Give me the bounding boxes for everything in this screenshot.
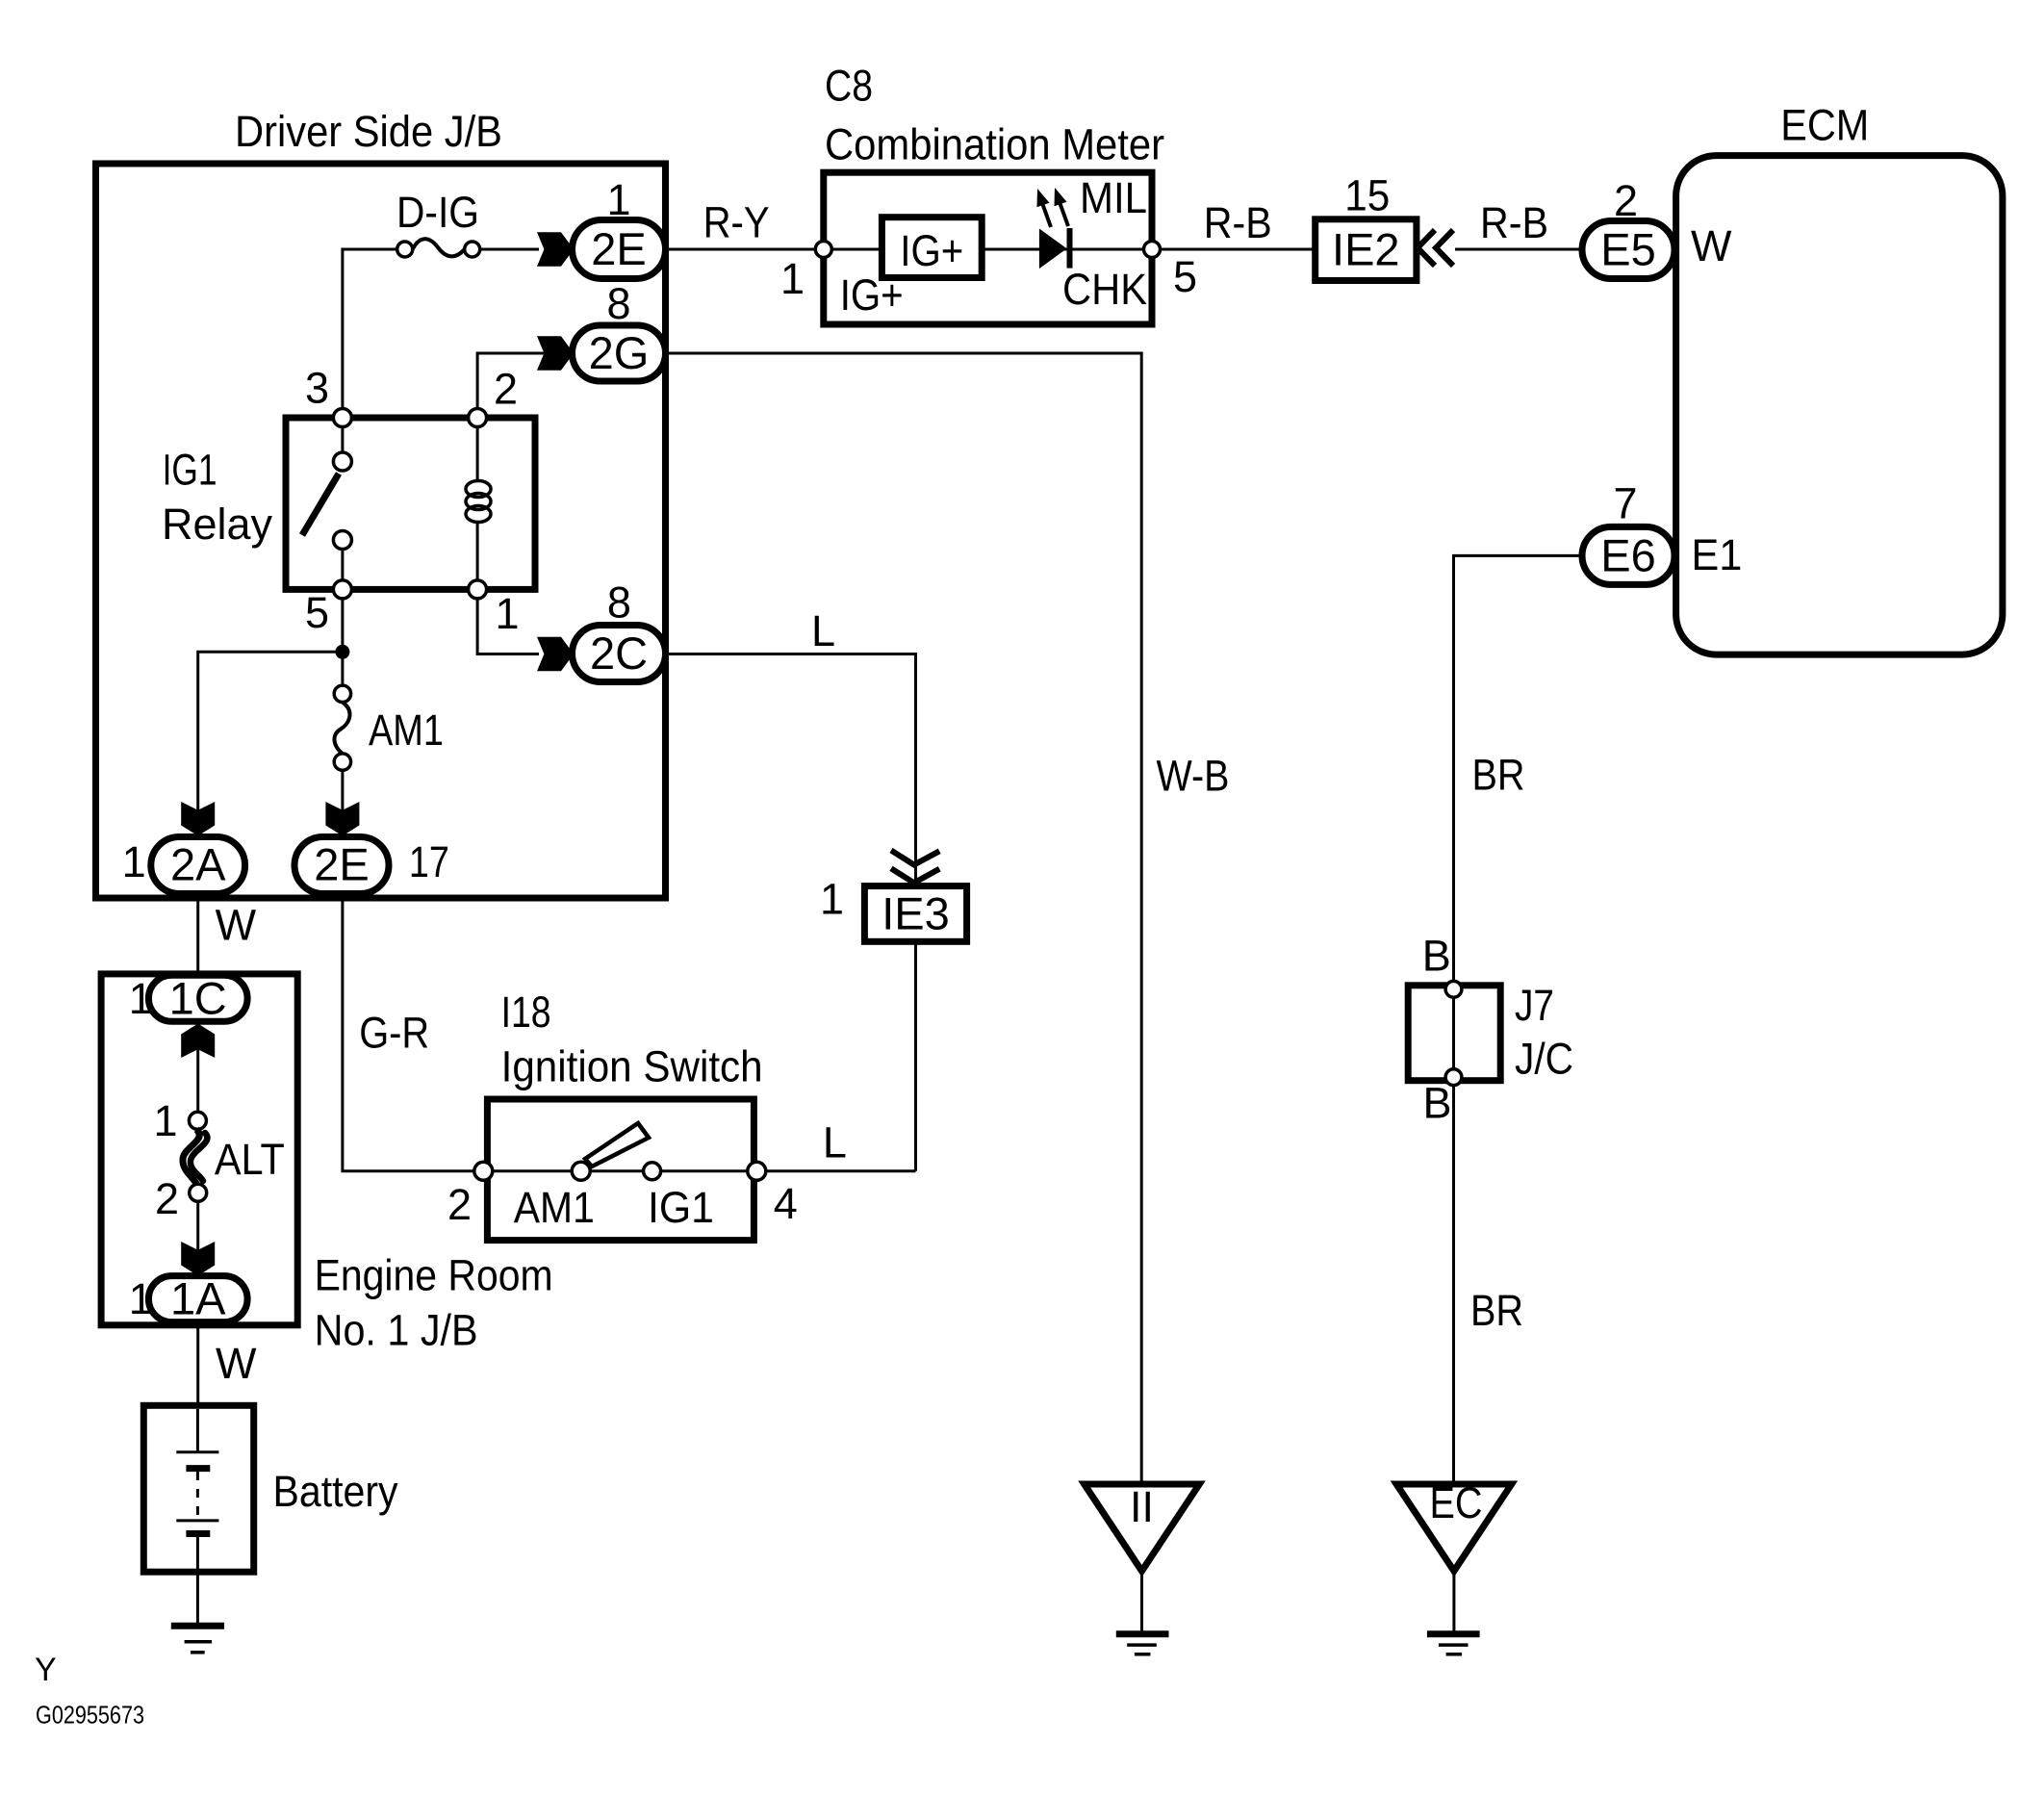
meter pin 1 circle	[815, 242, 831, 258]
wire: fuse AM1 down to 2E-17 arrow	[341, 770, 344, 836]
svg-text:B: B	[1422, 932, 1451, 981]
arrow up to 1C	[181, 1024, 215, 1059]
wire: IE3 down to switch wire	[914, 941, 917, 1171]
switch contact IG1 circle	[644, 1163, 661, 1180]
svg-text:8: 8	[607, 578, 631, 628]
svg-text:W: W	[1691, 221, 1732, 270]
meter internal wire	[831, 248, 1145, 251]
chevron 1 at IE2	[1418, 230, 1435, 266]
svg-text:BR: BR	[1470, 1286, 1523, 1335]
svg-text:Combination Meter: Combination Meter	[825, 120, 1164, 169]
svg-text:2E: 2E	[314, 839, 370, 890]
svg-text:2E: 2E	[591, 223, 647, 274]
svg-text:8: 8	[606, 279, 630, 328]
connector 2E (pin 17)	[294, 837, 389, 894]
svg-text:IG+: IG+	[900, 226, 963, 275]
svg-text:ALT: ALT	[215, 1135, 285, 1184]
svg-text:E5: E5	[1600, 224, 1656, 275]
wire: meter pin5 to IE2	[1161, 248, 1316, 251]
svg-text:17: 17	[409, 837, 449, 886]
relay switch wire stubs	[341, 427, 344, 453]
svg-text:2: 2	[494, 364, 518, 413]
arrow down into 1A	[181, 1242, 215, 1276]
svg-text:2: 2	[447, 1180, 472, 1229]
J7 bottom pin circle	[1445, 1069, 1462, 1086]
relay switch upper contact circle	[333, 452, 351, 471]
svg-text:R-B: R-B	[1204, 198, 1272, 247]
J7 internal wire	[1452, 986, 1455, 1080]
connector 2G	[573, 325, 666, 381]
svg-text:B: B	[1423, 1079, 1452, 1128]
fusible link ALT pin 1 circle	[189, 1112, 206, 1129]
LED cathode bar	[1067, 228, 1073, 269]
svg-text:2C: 2C	[590, 628, 648, 679]
svg-text:R-B: R-B	[1480, 198, 1548, 247]
connector 1C	[148, 975, 247, 1021]
J7 top pin circle	[1445, 981, 1462, 997]
relay switch lower contact circle	[333, 531, 351, 550]
fuse D-IG right terminal	[465, 242, 480, 257]
svg-text:C8: C8	[825, 62, 873, 111]
svg-text:Ignition Switch: Ignition Switch	[501, 1042, 763, 1091]
svg-text:Driver Side J/B: Driver Side J/B	[235, 107, 502, 156]
junction block: Driver Side J/B box	[96, 164, 666, 898]
fuse D-IG element	[413, 239, 465, 256]
wire: ALT to 1A	[196, 1201, 199, 1276]
Engine Room No.1 J/B box	[101, 974, 297, 1325]
chevron 1 into IE3	[891, 851, 939, 865]
wire: 2C right and down to IE3	[666, 654, 916, 886]
relay switch blade	[302, 474, 339, 535]
ground triangle II	[1085, 1484, 1200, 1571]
svg-text:L: L	[811, 606, 835, 655]
junction connector J7 box	[1408, 986, 1500, 1081]
svg-text:ECM: ECM	[1780, 100, 1869, 149]
svg-text:G02955673: G02955673	[36, 1701, 144, 1730]
wire: 1C to ALT fuse	[196, 1021, 199, 1113]
svg-text:1C: 1C	[169, 972, 227, 1023]
wire: IE2 to E5	[1455, 248, 1583, 251]
chevron 2 at IE2	[1436, 230, 1453, 266]
connector IE3	[864, 886, 966, 942]
connector 2C	[573, 626, 666, 682]
relay coil	[466, 481, 491, 498]
svg-text:II: II	[1130, 1482, 1154, 1531]
svg-text:IG1: IG1	[648, 1183, 714, 1232]
svg-text:J7: J7	[1515, 981, 1554, 1030]
svg-text:2: 2	[155, 1174, 179, 1223]
svg-text:E6: E6	[1600, 529, 1656, 580]
svg-text:3: 3	[305, 364, 329, 413]
svg-text:I18: I18	[501, 987, 551, 1037]
svg-text:IE2: IE2	[1332, 224, 1400, 275]
wire: 2E to meter pin 1	[666, 248, 816, 251]
switch internal wires	[491, 1169, 756, 1172]
svg-text:5: 5	[305, 588, 329, 637]
svg-text:J/C: J/C	[1515, 1035, 1573, 1084]
svg-text:AM1: AM1	[369, 705, 444, 755]
svg-text:1A: 1A	[170, 1273, 226, 1324]
arrow into connector 2E	[537, 232, 575, 266]
arrow down into 2E-17	[325, 802, 359, 836]
svg-text:Battery: Battery	[273, 1467, 398, 1516]
combination meter C8 box	[824, 172, 1152, 324]
connector 1A	[148, 1276, 247, 1322]
wire: junction left and down to 2A arrow	[198, 652, 343, 836]
svg-text:1: 1	[820, 875, 844, 924]
connector E5	[1582, 221, 1674, 279]
svg-text:L: L	[823, 1118, 847, 1167]
svg-text:Engine Room: Engine Room	[315, 1251, 553, 1300]
arrow into connector 2C	[537, 637, 575, 671]
svg-text:R-Y: R-Y	[703, 198, 770, 247]
svg-text:1: 1	[122, 837, 146, 886]
svg-text:D-IG: D-IG	[396, 188, 479, 237]
ignition switch I18 box	[487, 1099, 754, 1241]
relay IG1 box	[286, 418, 535, 589]
relay pin 1 circle	[469, 580, 487, 599]
svg-text:G-R: G-R	[359, 1008, 429, 1057]
wire: 2G right and down to ground triangle II	[666, 353, 1142, 1484]
svg-text:1: 1	[153, 1096, 177, 1145]
connector 2A	[151, 837, 245, 894]
svg-text:IE3: IE3	[881, 888, 950, 939]
junction dot	[335, 645, 349, 659]
wire: relay pin 1 down and right to 2C	[477, 599, 539, 654]
fuse D-IG left terminal	[397, 242, 413, 257]
arrow into connector 2G	[537, 336, 575, 370]
wire: fuse D-IG row to relay pin 3	[343, 249, 397, 409]
battery box	[143, 1405, 253, 1572]
wire: G-R riser from 2E-17 to switch pin 2	[343, 898, 475, 1171]
svg-text:IG+: IG+	[840, 270, 904, 320]
IG+ block	[881, 218, 982, 278]
connector 2E (Driver Side J/B pin 1)	[573, 220, 666, 279]
svg-text:No. 1 J/B: No. 1 J/B	[315, 1306, 478, 1355]
svg-text:Y: Y	[35, 1652, 57, 1688]
fuse AM1 bottom terminal	[334, 754, 350, 770]
svg-text:W: W	[216, 1339, 257, 1388]
wire: 2A down to Engine Room J/B	[196, 898, 199, 976]
ground symbol EC	[1427, 1630, 1480, 1637]
svg-text:2G: 2G	[589, 327, 650, 378]
svg-text:E1: E1	[1691, 530, 1742, 579]
svg-text:MIL: MIL	[1080, 173, 1147, 222]
relay pin 2 circle	[469, 409, 487, 427]
svg-text:AM1: AM1	[514, 1183, 595, 1232]
svg-text:EC: EC	[1430, 1478, 1483, 1527]
battery cell symbol	[196, 1409, 199, 1452]
switch lever	[585, 1123, 649, 1167]
switch contact AM1 circle	[572, 1162, 590, 1180]
fuse AM1 top terminal	[334, 685, 350, 702]
svg-text:15: 15	[1344, 170, 1390, 219]
connector E6	[1582, 526, 1674, 584]
svg-text:IG1: IG1	[163, 446, 217, 495]
fuse AM1 element	[334, 703, 349, 755]
wire: Engine Room J/B to battery	[196, 1325, 199, 1407]
meter pin 5 circle	[1144, 242, 1161, 258]
connector IE2	[1316, 219, 1417, 281]
svg-text:5: 5	[1173, 252, 1197, 301]
ground symbol battery	[171, 1623, 224, 1629]
relay coil wire to pin 1	[476, 522, 479, 589]
wire: E6 left and down to J7	[1454, 555, 1584, 983]
svg-text:1: 1	[496, 589, 520, 638]
relay pin 5 circle	[333, 580, 351, 599]
wire: J7 down to ground triangle EC	[1452, 1086, 1455, 1484]
wire: relay pin 5 down to junction	[341, 599, 344, 686]
fusible link ALT pin 2 circle	[190, 1184, 207, 1201]
ground symbol II	[1116, 1630, 1169, 1637]
svg-text:W: W	[216, 900, 257, 949]
switch pin 2 circle	[474, 1162, 493, 1180]
svg-text:CHK: CHK	[1062, 265, 1147, 314]
svg-text:W-B: W-B	[1157, 751, 1230, 800]
wire: battery to ground	[196, 1572, 199, 1626]
svg-text:1: 1	[780, 254, 805, 303]
svg-text:7: 7	[1613, 479, 1637, 528]
ground triangle EC	[1396, 1484, 1512, 1571]
wire: triangle II to ground	[1140, 1571, 1143, 1633]
svg-text:4: 4	[774, 1179, 798, 1228]
LED MIL: light arrows	[1042, 203, 1051, 227]
wire: triangle EC to ground	[1452, 1571, 1455, 1633]
wire: relay pin 2 up and right to 2G	[477, 353, 572, 409]
wire: switch pin 4 to IE3 riser	[765, 1169, 916, 1172]
relay coil wire from pin 2	[476, 418, 479, 481]
relay pin 3 circle	[333, 409, 351, 427]
LED MIL diode triangle	[1039, 229, 1067, 269]
switch pin 4 circle	[748, 1162, 766, 1180]
svg-text:BR: BR	[1472, 750, 1525, 799]
chevron 2 into IE3	[891, 868, 939, 883]
ECM box	[1676, 156, 2003, 655]
svg-text:Relay: Relay	[162, 500, 272, 549]
fusible link ALT element	[183, 1130, 199, 1185]
wire: fuse D-IG to arrow into 2E	[480, 248, 539, 251]
arrow down into 2A	[181, 802, 215, 836]
svg-text:2A: 2A	[170, 839, 226, 890]
